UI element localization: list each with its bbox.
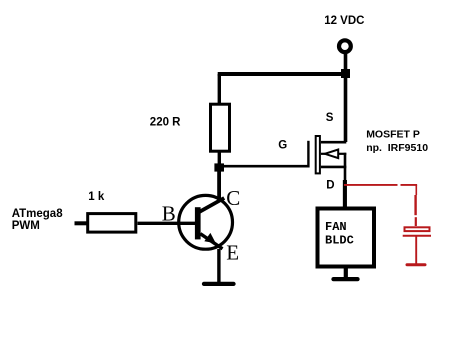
svg-text:12 VDC: 12 VDC — [324, 15, 364, 27]
svg-text:C: C — [226, 186, 240, 210]
svg-text:E: E — [226, 241, 239, 265]
svg-text:ATmega8: ATmega8 — [12, 208, 64, 220]
svg-text:1 k: 1 k — [88, 191, 105, 203]
svg-text:MOSFET P: MOSFET P — [366, 129, 420, 141]
svg-text:220 R: 220 R — [150, 117, 181, 129]
svg-text:FAN: FAN — [325, 220, 347, 234]
svg-text:D: D — [326, 179, 334, 191]
svg-text:np. IRF9510: np. IRF9510 — [366, 142, 428, 154]
svg-text:PWM: PWM — [12, 220, 40, 232]
svg-text:S: S — [326, 112, 334, 124]
svg-text:G: G — [278, 140, 287, 152]
svg-text:BLDC: BLDC — [325, 233, 354, 247]
svg-text:B: B — [162, 202, 176, 226]
